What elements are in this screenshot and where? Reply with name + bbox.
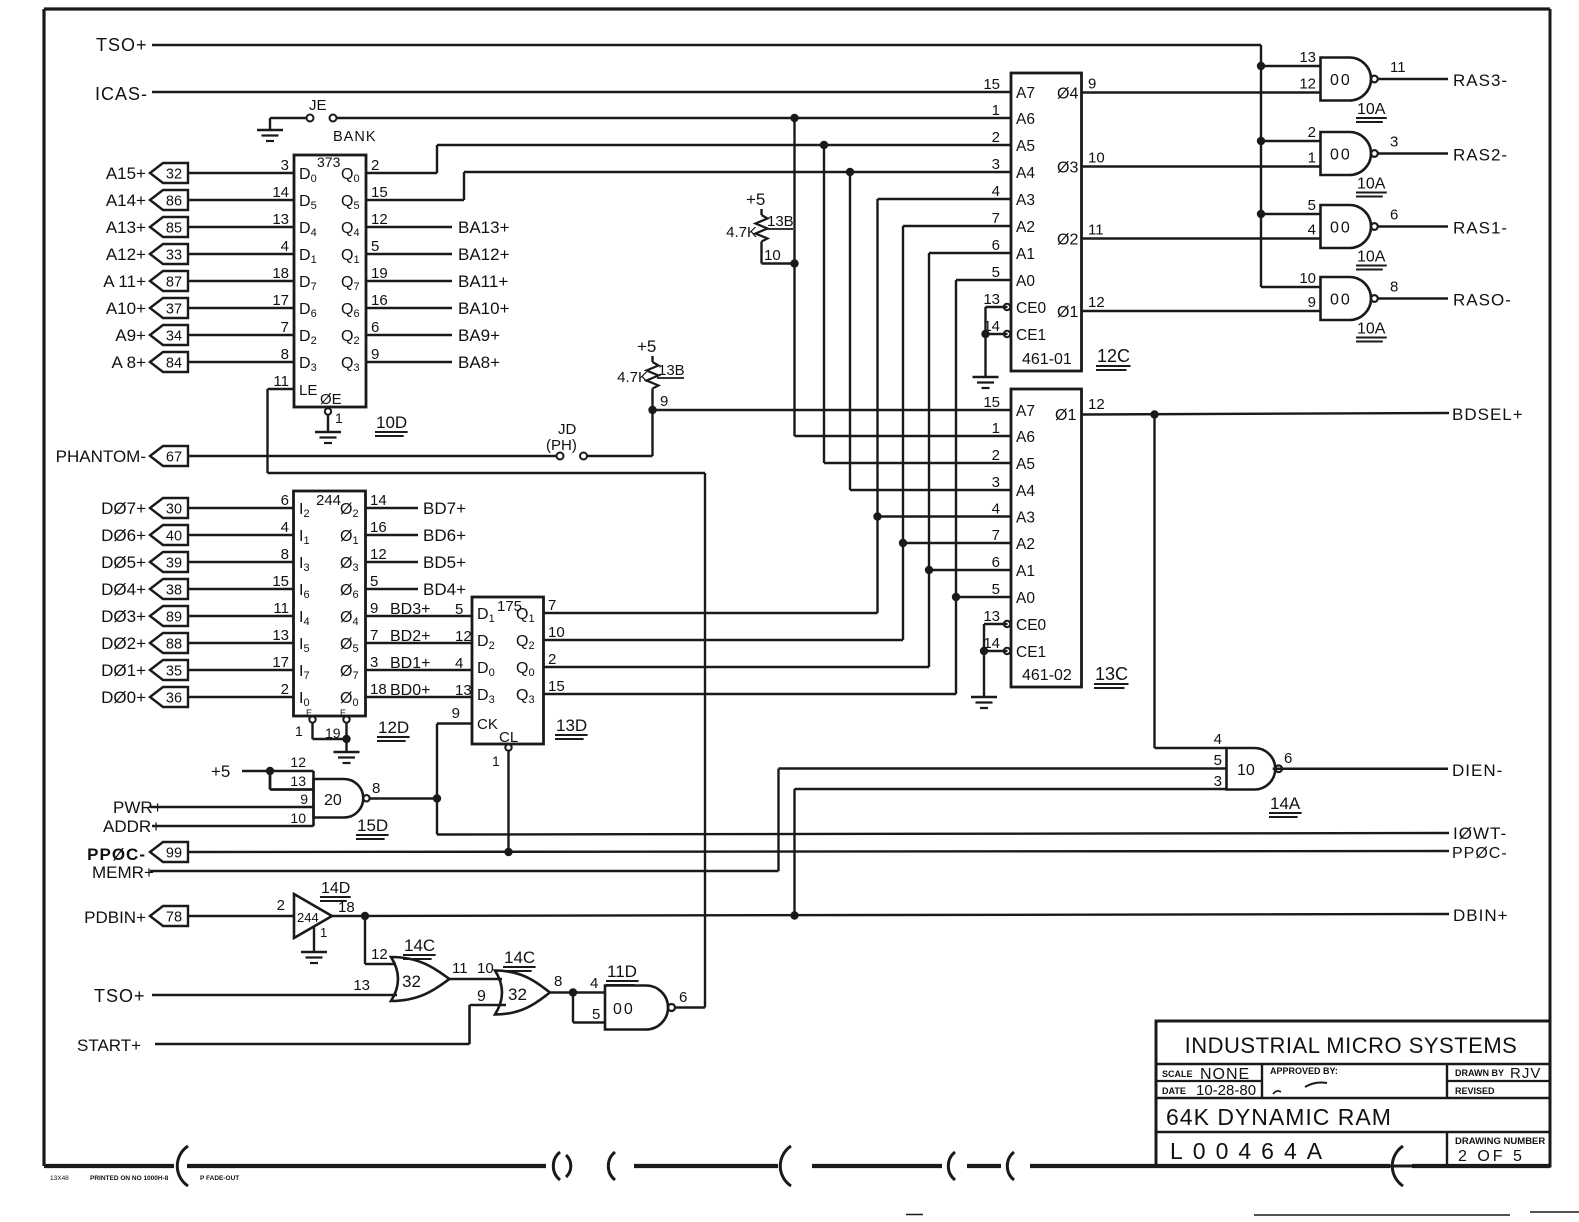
connector A12+ pin 33 bbox=[106, 244, 188, 264]
svg-text:5: 5 bbox=[371, 238, 379, 255]
wire O4 to gate 10A pin 12 bbox=[1082, 91, 1321, 93]
jumper JD (PH) bbox=[546, 421, 587, 460]
node BDSEL+ bbox=[1452, 405, 1524, 424]
svg-text:A15+: A15+ bbox=[106, 164, 146, 183]
or gate U14C #2 7432 bbox=[495, 971, 562, 1015]
ref label 11D bbox=[606, 962, 639, 985]
svg-text:14D: 14D bbox=[321, 880, 350, 897]
wire RAS2- output bbox=[1378, 152, 1449, 154]
svg-text:32: 32 bbox=[166, 167, 182, 183]
wire buffer out to OR gate pin 12 bbox=[365, 916, 396, 964]
wire DBIN+ from buffer to right edge bbox=[332, 911, 1449, 920]
svg-text:DBIN+: DBIN+ bbox=[1453, 906, 1509, 925]
svg-text:13B: 13B bbox=[658, 362, 685, 379]
svg-text:IØWT-: IØWT- bbox=[1453, 824, 1507, 843]
svg-text:PRINTED ON NO 1000H-8: PRINTED ON NO 1000H-8 bbox=[90, 1175, 169, 1182]
svg-text:JE: JE bbox=[309, 97, 327, 114]
ref label 10D bbox=[375, 413, 408, 436]
svg-text:15D: 15D bbox=[357, 816, 388, 835]
svg-text:A12+: A12+ bbox=[106, 245, 146, 264]
svg-text:4: 4 bbox=[281, 519, 289, 536]
svg-text:A7: A7 bbox=[1016, 85, 1035, 102]
svg-text:BD6+: BD6+ bbox=[423, 526, 466, 545]
node RAS1- bbox=[1453, 219, 1508, 238]
svg-text:6: 6 bbox=[1390, 207, 1398, 224]
svg-text:10A: 10A bbox=[1357, 176, 1386, 193]
svg-text:A 11+: A 11+ bbox=[103, 272, 146, 291]
svg-text:BA12+: BA12+ bbox=[458, 245, 510, 264]
svg-text:A5: A5 bbox=[1016, 456, 1035, 473]
svg-text:13: 13 bbox=[455, 682, 472, 699]
ref label 10A #2 bbox=[1356, 176, 1387, 197]
svg-text:10: 10 bbox=[1237, 762, 1255, 779]
ref label 14D bbox=[320, 880, 351, 901]
svg-text:6: 6 bbox=[371, 319, 379, 336]
svg-text:A7: A7 bbox=[1016, 403, 1035, 420]
wire A9+ to 373 bbox=[188, 334, 294, 336]
svg-text:BANK: BANK bbox=[333, 129, 377, 145]
wire D06+ to 244 bbox=[188, 534, 294, 536]
svg-text:9: 9 bbox=[371, 346, 379, 363]
wire A12+ to 373 bbox=[188, 253, 294, 255]
connector A10+ pin 37 bbox=[106, 298, 188, 318]
svg-text:13X48: 13X48 bbox=[50, 1175, 69, 1182]
svg-text:2: 2 bbox=[992, 129, 1000, 146]
svg-text:13: 13 bbox=[272, 627, 289, 644]
svg-text:10-28-80: 10-28-80 bbox=[1196, 1082, 1256, 1099]
buffer U14D 74244 bbox=[294, 894, 355, 940]
svg-text:10: 10 bbox=[548, 624, 565, 641]
wire 175 Q1 to 461-01/461-02 A3 bbox=[544, 199, 1012, 613]
svg-text:1: 1 bbox=[1308, 150, 1316, 167]
svg-text:+5: +5 bbox=[746, 190, 765, 209]
svg-text:12: 12 bbox=[1088, 294, 1105, 311]
svg-text:5: 5 bbox=[992, 264, 1000, 281]
svg-text:BD2+: BD2+ bbox=[390, 628, 430, 645]
nand gate U10A #4 (RASO-) bbox=[1299, 270, 1398, 320]
svg-text:RAS1-: RAS1- bbox=[1453, 219, 1508, 238]
svg-text:10A: 10A bbox=[1357, 101, 1386, 118]
svg-text:TSO+: TSO+ bbox=[94, 986, 146, 1006]
svg-text:DATE: DATE bbox=[1162, 1086, 1186, 1096]
svg-text:7: 7 bbox=[992, 527, 1000, 544]
svg-text:40: 40 bbox=[166, 529, 182, 545]
svg-text:SCALE: SCALE bbox=[1162, 1069, 1193, 1079]
latch U10D 74373 bbox=[272, 154, 387, 426]
svg-text:8: 8 bbox=[554, 973, 562, 990]
svg-text:2: 2 bbox=[277, 897, 285, 914]
svg-text:12: 12 bbox=[371, 946, 388, 963]
svg-text:38: 38 bbox=[166, 583, 182, 599]
svg-text:11: 11 bbox=[273, 373, 289, 390]
svg-text:4.7K: 4.7K bbox=[726, 224, 757, 241]
wire PDBIN+ to buffer bbox=[188, 897, 294, 916]
svg-text:NONE: NONE bbox=[1200, 1066, 1250, 1083]
wire RAS3- output bbox=[1378, 78, 1449, 80]
svg-text:00: 00 bbox=[1330, 72, 1352, 89]
connector PPOC- pin 99 bbox=[87, 842, 188, 864]
connector D05+ pin 39 bbox=[101, 552, 188, 572]
svg-text:MEMR+: MEMR+ bbox=[92, 863, 154, 882]
svg-text:4: 4 bbox=[590, 975, 598, 992]
svg-text:17: 17 bbox=[272, 654, 289, 671]
svg-text:DØ0+: DØ0+ bbox=[101, 688, 146, 707]
svg-text:DRAWING NUMBER: DRAWING NUMBER bbox=[1455, 1136, 1545, 1147]
wire 244 to 175 (BD3+) bbox=[366, 601, 473, 618]
node +5 at gate 15D bbox=[211, 762, 230, 781]
svg-text:32: 32 bbox=[508, 985, 527, 1004]
ground at 461-02 CE pins bbox=[971, 624, 1008, 708]
connector A8+ pin 84 bbox=[111, 352, 188, 372]
svg-text:87: 87 bbox=[166, 275, 182, 291]
wire 373 Q to BA10+ bbox=[366, 299, 510, 318]
svg-text:34: 34 bbox=[166, 329, 182, 345]
svg-text:DØ6+: DØ6+ bbox=[101, 526, 146, 545]
output labels 461-01 bbox=[1057, 76, 1105, 322]
svg-text:A 8+: A 8+ bbox=[111, 353, 146, 372]
svg-text:00: 00 bbox=[1330, 292, 1352, 309]
svg-text:10: 10 bbox=[290, 810, 306, 826]
svg-text:7: 7 bbox=[281, 319, 289, 336]
connector A11+ pin 87 bbox=[103, 271, 188, 291]
svg-text:A4: A4 bbox=[1016, 165, 1035, 182]
svg-text:461-02: 461-02 bbox=[1022, 667, 1072, 684]
svg-text:6: 6 bbox=[679, 989, 687, 1006]
svg-text:37: 37 bbox=[166, 302, 182, 318]
svg-text:RJV: RJV bbox=[1510, 1065, 1541, 1082]
node TSO+ (lower) bbox=[94, 986, 146, 1006]
svg-text:BD0+: BD0+ bbox=[390, 682, 430, 699]
svg-text:64K DYNAMIC RAM: 64K DYNAMIC RAM bbox=[1166, 1104, 1392, 1130]
svg-text:RAS2-: RAS2- bbox=[1453, 146, 1508, 165]
svg-text:16: 16 bbox=[371, 292, 388, 309]
svg-text:17: 17 bbox=[272, 292, 289, 309]
wire D01+ to 244 bbox=[188, 669, 294, 671]
svg-text:5: 5 bbox=[370, 573, 378, 590]
wire BDSEL+ down to gate 14A pin 4 bbox=[1155, 415, 1227, 749]
svg-text:4.7K: 4.7K bbox=[617, 369, 648, 386]
svg-text:REVISED: REVISED bbox=[1455, 1086, 1495, 1096]
connector D02+ pin 88 bbox=[101, 633, 188, 653]
svg-text:BA13+: BA13+ bbox=[458, 218, 510, 237]
svg-text:CE0: CE0 bbox=[1016, 300, 1047, 317]
node IOWT- bbox=[1453, 824, 1507, 843]
svg-text:A5: A5 bbox=[1016, 138, 1035, 155]
svg-text:16: 16 bbox=[370, 519, 387, 536]
svg-text:3: 3 bbox=[370, 654, 378, 671]
svg-text:14: 14 bbox=[272, 184, 289, 201]
svg-text:6: 6 bbox=[992, 554, 1000, 571]
svg-text:5: 5 bbox=[455, 601, 463, 618]
wire vertical A5 bus to 461-02 bbox=[824, 145, 1011, 463]
wire JD to pullup node and 461-02 A7 bbox=[587, 406, 1011, 456]
svg-text:Ø1: Ø1 bbox=[1057, 304, 1078, 321]
wire 373 Q to BA9+ bbox=[366, 326, 500, 345]
svg-text:13C: 13C bbox=[1095, 664, 1128, 684]
wire A14+ to 373 bbox=[188, 199, 294, 201]
svg-text:2: 2 bbox=[548, 651, 556, 668]
svg-text:DØ1+: DØ1+ bbox=[101, 661, 146, 680]
svg-text:8: 8 bbox=[1390, 279, 1398, 296]
wire +5 to pins 12/13 bbox=[242, 767, 314, 790]
nand U11D 7400 bbox=[605, 986, 687, 1030]
svg-text:APPROVED BY:: APPROVED BY: bbox=[1270, 1066, 1338, 1076]
wire OR2 out to NAND 11D pins 4/5 bbox=[550, 975, 605, 1023]
svg-text:9: 9 bbox=[1308, 294, 1316, 311]
buffer U12D 74244 bbox=[272, 491, 386, 741]
svg-text:ØE: ØE bbox=[320, 391, 342, 408]
svg-text:DØ3+: DØ3+ bbox=[101, 607, 146, 626]
svg-text:PPØC-: PPØC- bbox=[1452, 845, 1508, 862]
svg-text:5: 5 bbox=[992, 581, 1000, 598]
wire MEMR+ to gate 14A pin 5 bbox=[150, 769, 1227, 872]
svg-text:11: 11 bbox=[1390, 59, 1406, 76]
svg-text:(PH): (PH) bbox=[546, 437, 577, 454]
svg-text:9: 9 bbox=[452, 705, 460, 722]
svg-text:A10+: A10+ bbox=[106, 299, 146, 318]
wire 175 Q3 to 461-01/461-02 A0 bbox=[544, 280, 1012, 694]
svg-text:10: 10 bbox=[477, 960, 494, 977]
wire 373 Q0 to 461-01 A5 bbox=[366, 141, 1011, 173]
svg-text:CE1: CE1 bbox=[1016, 327, 1046, 344]
svg-text:35: 35 bbox=[166, 664, 182, 680]
ref label 14C #1 bbox=[403, 936, 436, 959]
nand gate U10A #3 (RAS1-) bbox=[1308, 197, 1399, 248]
svg-text:A2: A2 bbox=[1016, 536, 1035, 553]
wire O1 to gate 10A pin 9 bbox=[1082, 310, 1321, 312]
svg-text:TSO+: TSO+ bbox=[96, 35, 148, 55]
wire D07+ to 244 bbox=[188, 507, 294, 509]
svg-text:2: 2 bbox=[371, 157, 379, 174]
svg-text:JD: JD bbox=[558, 421, 577, 438]
svg-text:1: 1 bbox=[320, 925, 327, 940]
svg-text:7: 7 bbox=[370, 627, 378, 644]
ground at buffer 14D bbox=[301, 927, 327, 963]
svg-text:10A: 10A bbox=[1357, 321, 1386, 338]
wire 11D output up to 373 LE bbox=[268, 389, 706, 1008]
svg-text:33: 33 bbox=[166, 248, 182, 264]
svg-text:12D: 12D bbox=[378, 718, 409, 737]
svg-text:244: 244 bbox=[316, 492, 341, 509]
svg-text:6: 6 bbox=[281, 492, 289, 509]
wire DIEN- output bbox=[1273, 767, 1448, 770]
svg-text:12: 12 bbox=[290, 754, 306, 770]
svg-text:5: 5 bbox=[592, 1006, 600, 1023]
svg-text:BA8+: BA8+ bbox=[458, 353, 500, 372]
wire 175 CK from gate 15D output bbox=[433, 724, 472, 835]
svg-text:30: 30 bbox=[166, 502, 182, 518]
svg-text:84: 84 bbox=[166, 356, 182, 372]
svg-text:10: 10 bbox=[1088, 150, 1105, 167]
svg-text:ICAS-: ICAS- bbox=[95, 84, 148, 104]
svg-text:A9+: A9+ bbox=[115, 326, 146, 345]
svg-text:9: 9 bbox=[1088, 76, 1096, 93]
ram controller U12C 3242 (461-01) bbox=[983, 73, 1081, 371]
svg-text:10: 10 bbox=[1299, 270, 1316, 287]
wire A10+ to 373 bbox=[188, 307, 294, 309]
svg-text:2 OF 5: 2 OF 5 bbox=[1458, 1148, 1525, 1165]
wire 244 to BD7+ bbox=[366, 499, 467, 518]
svg-text:18: 18 bbox=[272, 265, 289, 282]
svg-text:9: 9 bbox=[370, 600, 378, 617]
ref label 15D bbox=[356, 816, 389, 839]
svg-text:1: 1 bbox=[992, 102, 1000, 119]
svg-text:8: 8 bbox=[281, 546, 289, 563]
svg-text:A1: A1 bbox=[1016, 563, 1035, 580]
svg-text:7: 7 bbox=[548, 597, 556, 614]
svg-text:A4: A4 bbox=[1016, 483, 1035, 500]
svg-text:4: 4 bbox=[281, 238, 289, 255]
nand U15D 7420 bbox=[290, 754, 380, 826]
svg-text:20: 20 bbox=[324, 792, 342, 809]
wire JE to 461-01 A6 and down to 461-02 A6 bbox=[337, 114, 1012, 436]
ref label 13C bbox=[1094, 664, 1128, 688]
svg-text:11D: 11D bbox=[607, 962, 637, 981]
svg-text:78: 78 bbox=[166, 910, 182, 926]
wire O2 to gate 10A pin 4 bbox=[1082, 237, 1321, 239]
svg-text:9: 9 bbox=[477, 988, 486, 1005]
svg-text:13D: 13D bbox=[556, 716, 587, 735]
connector D06+ pin 40 bbox=[101, 525, 188, 545]
node ICAS- bbox=[95, 84, 148, 104]
svg-text:7: 7 bbox=[992, 210, 1000, 227]
resistor R13B 4.7K (A7 pullup) bbox=[617, 337, 685, 410]
svg-text:5: 5 bbox=[1214, 752, 1222, 769]
connector PDBIN+ pin 78 bbox=[84, 906, 188, 927]
svg-text:A3: A3 bbox=[1016, 192, 1035, 209]
ground at 461-01 CE pins bbox=[973, 307, 1008, 388]
svg-text:+5: +5 bbox=[637, 337, 656, 356]
svg-text:PPØC-: PPØC- bbox=[87, 845, 146, 864]
nand U14A 7410 bbox=[1214, 731, 1293, 790]
wire D02+ to 244 bbox=[188, 642, 294, 644]
output label 461-02 O1 bbox=[1055, 396, 1105, 424]
node DBIN+ bbox=[1453, 906, 1509, 925]
svg-text:A0: A0 bbox=[1016, 590, 1035, 607]
svg-text:1: 1 bbox=[492, 753, 500, 769]
svg-text:14A: 14A bbox=[1270, 794, 1301, 813]
svg-text:BD5+: BD5+ bbox=[423, 553, 466, 572]
svg-text:10: 10 bbox=[764, 247, 781, 264]
svg-text:A13+: A13+ bbox=[106, 218, 146, 237]
svg-text:BD3+: BD3+ bbox=[390, 601, 430, 618]
svg-text:2: 2 bbox=[1308, 124, 1316, 141]
node ADDR+ bbox=[103, 817, 161, 836]
svg-text:L00464A: L00464A bbox=[1170, 1138, 1332, 1164]
node START+ bbox=[77, 1036, 141, 1055]
svg-text:86: 86 bbox=[166, 194, 182, 210]
svg-text:13: 13 bbox=[983, 291, 1000, 308]
wire D05+ to 244 bbox=[188, 561, 294, 563]
wire 373 Q5 to 461-01 A4 bbox=[366, 168, 1011, 200]
svg-text:RAS3-: RAS3- bbox=[1453, 71, 1508, 90]
svg-text:00: 00 bbox=[1330, 147, 1352, 164]
svg-text:RASO-: RASO- bbox=[1453, 291, 1512, 310]
svg-text:A6: A6 bbox=[1016, 429, 1035, 446]
svg-text:15: 15 bbox=[983, 76, 1000, 93]
svg-text:A3: A3 bbox=[1016, 510, 1035, 527]
wire gate 15D output to CK junction and IOWT- bbox=[370, 799, 1449, 835]
svg-text:89: 89 bbox=[166, 610, 182, 626]
nand gate U10A #2 (RAS2-) bbox=[1308, 124, 1399, 175]
svg-text:BD1+: BD1+ bbox=[390, 655, 430, 672]
svg-text:BDSEL+: BDSEL+ bbox=[1452, 405, 1524, 424]
svg-text:1: 1 bbox=[992, 420, 1000, 437]
svg-text:A0: A0 bbox=[1016, 273, 1035, 290]
svg-text:4: 4 bbox=[1308, 222, 1316, 239]
ref label 13D bbox=[555, 716, 588, 739]
wire TSO+ to OR pin 13 bbox=[152, 977, 397, 995]
wire 175 CL to PPOC- line bbox=[504, 751, 512, 857]
svg-text:36: 36 bbox=[166, 691, 182, 707]
svg-text:3: 3 bbox=[1390, 134, 1398, 151]
node RASO- bbox=[1453, 291, 1512, 310]
svg-text:4: 4 bbox=[455, 655, 463, 672]
svg-text:12: 12 bbox=[455, 628, 472, 645]
svg-text:4: 4 bbox=[1214, 731, 1222, 748]
ref label 10A #3 bbox=[1356, 249, 1387, 270]
svg-text:DØ4+: DØ4+ bbox=[101, 580, 146, 599]
wire 175 Q0 to 461-01/461-02 A1 bbox=[544, 253, 1012, 667]
wire RAS1- output bbox=[1378, 225, 1449, 227]
svg-text:244: 244 bbox=[297, 910, 319, 925]
wire RASO- output bbox=[1378, 297, 1449, 299]
wire 373 Q to BA13+ bbox=[366, 218, 510, 237]
svg-text:A6: A6 bbox=[1016, 111, 1035, 128]
junction dots on TSO+ vertical bbox=[1257, 62, 1265, 218]
svg-text:32: 32 bbox=[402, 972, 421, 991]
svg-text:+5: +5 bbox=[211, 762, 230, 781]
wire 244 to 175 (BD1+) bbox=[366, 655, 473, 672]
wire 244 to 175 (BD0+) bbox=[366, 682, 473, 699]
svg-text:1: 1 bbox=[295, 723, 303, 739]
ref label 12C bbox=[1096, 346, 1130, 370]
wire START+ to OR2 pin 9 bbox=[155, 988, 506, 1044]
svg-text:PHANTOM-: PHANTOM- bbox=[56, 447, 146, 466]
svg-text:11: 11 bbox=[273, 600, 289, 617]
node PPOC- right bbox=[1452, 845, 1508, 862]
title block bbox=[1156, 1021, 1550, 1166]
connector A9+ pin 34 bbox=[115, 325, 188, 345]
svg-text:9: 9 bbox=[300, 791, 308, 807]
connector A15+ pin 32 bbox=[106, 163, 188, 183]
svg-text:85: 85 bbox=[166, 221, 182, 237]
nand gate U10A #1 (RAS3-) bbox=[1299, 49, 1405, 101]
svg-text:00: 00 bbox=[1330, 220, 1352, 237]
svg-text:Ø1: Ø1 bbox=[1055, 407, 1076, 424]
svg-text:15: 15 bbox=[371, 184, 388, 201]
wire ADDR+ to pin 10 bbox=[152, 825, 314, 827]
svg-text:67: 67 bbox=[166, 450, 182, 466]
connector D04+ pin 38 bbox=[101, 579, 188, 599]
ground at 244 enables bbox=[313, 723, 360, 764]
svg-text:INDUSTRIAL MICRO SYSTEMS: INDUSTRIAL MICRO SYSTEMS bbox=[1185, 1033, 1518, 1058]
wire DBIN+ to gate 14A pin 3 bbox=[795, 789, 1227, 916]
svg-text:13: 13 bbox=[1299, 49, 1316, 66]
svg-text:DØ2+: DØ2+ bbox=[101, 634, 146, 653]
svg-text:3: 3 bbox=[992, 474, 1000, 491]
svg-text:4: 4 bbox=[992, 501, 1000, 518]
wire OR1 out to OR2 pin 10 bbox=[450, 960, 503, 979]
wire vertical A4 bus to 461-02 bbox=[850, 172, 1011, 490]
svg-text:CE1: CE1 bbox=[1016, 644, 1046, 661]
svg-text:DIEN-: DIEN- bbox=[1452, 761, 1503, 780]
connector A13+ pin 85 bbox=[106, 217, 188, 237]
svg-text:8: 8 bbox=[372, 780, 380, 797]
svg-text:START+: START+ bbox=[77, 1036, 141, 1055]
wire D03+ to 244 bbox=[188, 615, 294, 617]
wire PPOC- across to right edge bbox=[188, 851, 1449, 852]
